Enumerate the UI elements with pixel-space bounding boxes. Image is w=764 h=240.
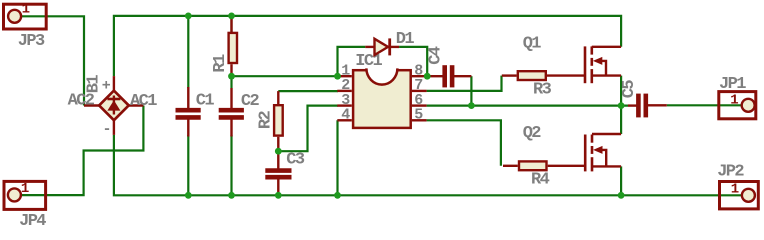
node junction C3/GND (275, 192, 282, 199)
svg-text:+: + (102, 78, 111, 95)
svg-text:R4: R4 (531, 170, 550, 189)
wire IC1 pin7 to R3 (427, 76, 502, 91)
IC1 pin 2 (337, 90, 352, 92)
node junction pin4/GND (334, 192, 341, 199)
wire JP3 to AC2 (21, 16, 84, 105)
Q2 body arrow (593, 146, 602, 154)
IC1 pin 6 (412, 104, 427, 106)
IC1 pin 8 (412, 75, 427, 77)
svg-text:5: 5 (414, 107, 423, 124)
node junction output/Q1/Q2 (618, 102, 625, 109)
resistor R1 (211, 16, 237, 76)
wire Q2 source to GND (620, 166, 622, 195)
resistor R3 (502, 71, 585, 99)
IC1 pin 7 (412, 90, 427, 92)
capacitor C2 (219, 88, 260, 137)
bridge rectifier B1 (68, 75, 158, 138)
svg-text:1: 1 (731, 181, 739, 197)
wire C1 bottom (187, 135, 189, 195)
svg-text:JP2: JP2 (717, 163, 744, 182)
wire IC1 pin1 to D1 anode (338, 47, 366, 76)
resistor R4 (503, 161, 585, 189)
Q1 drain stub (592, 46, 621, 48)
svg-text:Q1: Q1 (523, 34, 542, 53)
transistor Q2 N-MOSFET (523, 124, 621, 172)
Q2 channel dashes (591, 135, 594, 143)
Q1 source stub (592, 74, 621, 76)
capacitor C1 (176, 87, 215, 137)
wire IC1 pin5 to R4 (427, 120, 501, 166)
transistor Q1 N-MOSFET (523, 34, 621, 83)
wire IC1 pin4 to GND (336, 120, 338, 195)
svg-text:AC1: AC1 (130, 92, 157, 111)
wire C4 right drop to output row (470, 76, 472, 105)
svg-text:D1: D1 (396, 30, 415, 49)
node junction C4/output row (468, 102, 475, 109)
svg-text:1: 1 (21, 181, 29, 197)
node junction pin1/D1 (334, 73, 341, 80)
svg-text:IC1: IC1 (355, 52, 382, 71)
wire C2 top (230, 76, 232, 88)
svg-text:AC2: AC2 (68, 91, 95, 110)
svg-text:1: 1 (730, 93, 738, 109)
capacitor C5 (620, 80, 667, 118)
wire Q2 drain rise (620, 106, 622, 134)
node junction R1/top rail (228, 13, 235, 20)
B1 pin AC2 (84, 104, 101, 106)
node junction Q2 source/GND (618, 192, 625, 199)
connector JP1 (719, 75, 756, 119)
B1 pin AC1 (127, 104, 143, 106)
capacitor C3 (265, 151, 305, 194)
wire net R1 bottom to IC1 pin 1 (232, 75, 339, 77)
connector JP3 (4, 2, 47, 52)
diode D1 (365, 30, 414, 55)
node junction C2/GND (228, 192, 235, 199)
wire Q1 source drop (620, 76, 622, 106)
IC IC1 (8-pin DIP) (337, 52, 426, 128)
svg-text:C5: C5 (620, 80, 639, 99)
IC1 pin 4 (337, 119, 352, 121)
svg-text:C3: C3 (286, 151, 305, 170)
Q2 gate bar (584, 135, 587, 172)
wire output row pin6 to C5 (427, 104, 628, 106)
resistor R2 (257, 91, 283, 151)
Q1 channel dashes (590, 46, 593, 54)
svg-text:Q2: Q2 (523, 124, 542, 143)
wire D1 cathode to IC1 pin8 (399, 47, 427, 76)
wire C2 bottom (230, 135, 232, 195)
node junction C1/top rail (185, 13, 192, 20)
wire JP4 to AC1 (21, 106, 143, 196)
wire C1 top (187, 16, 189, 88)
svg-text:4: 4 (341, 107, 350, 124)
Q2 source stub (592, 165, 621, 167)
wire R1 top (230, 16, 232, 32)
svg-text:1: 1 (22, 2, 30, 18)
connector JP2 (717, 163, 758, 209)
node junction R1/C2/pin1 (228, 73, 235, 80)
svg-text:JP4: JP4 (19, 212, 46, 226)
svg-text:R3: R3 (533, 81, 552, 100)
connector JP4 (4, 181, 46, 231)
capacitor C4 (426, 46, 471, 87)
wire C5 to JP1 (667, 104, 742, 106)
Q1 gate bar (584, 46, 587, 83)
svg-text:C2: C2 (241, 92, 260, 111)
IC1 pin 1 (337, 75, 352, 77)
svg-text:C1: C1 (196, 92, 215, 111)
svg-text:-: - (103, 121, 111, 138)
B1 pin minus (113, 119, 115, 135)
svg-text:C4: C4 (426, 46, 445, 65)
svg-text:R2: R2 (257, 110, 276, 129)
wire top rail VCC (114, 16, 621, 76)
svg-text:JP3: JP3 (18, 32, 45, 51)
wire node R2/C3 to IC1 pin3 (278, 106, 338, 152)
wire IC1 pin2 to R2 (278, 90, 338, 92)
Q2 drain stub (592, 133, 621, 135)
IC1 pin 3 (337, 104, 352, 106)
svg-text:JP1: JP1 (719, 75, 746, 94)
IC1 pin 5 (412, 119, 427, 121)
node junction R2/C3/pin3 (275, 148, 282, 155)
Q1 body arrow (593, 57, 602, 65)
wire bottom rail GND (114, 135, 742, 195)
svg-text:R1: R1 (211, 54, 230, 73)
B1 pin plus (113, 76, 115, 92)
node junction pin8/D1/C4 (424, 73, 431, 80)
node junction C1/GND (185, 192, 192, 199)
